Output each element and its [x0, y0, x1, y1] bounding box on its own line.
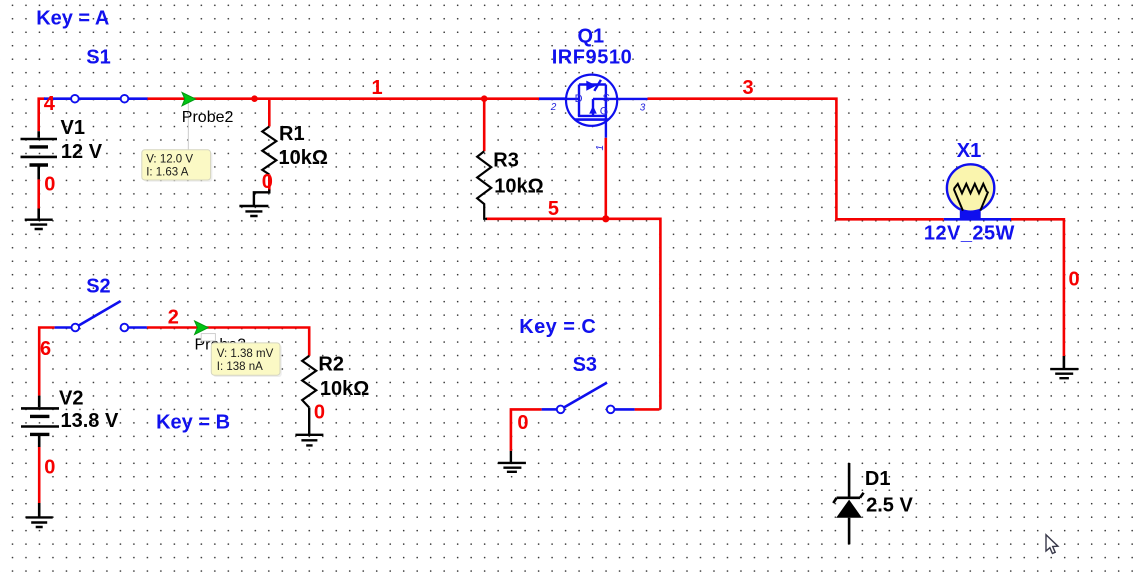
svg-text:IRF9510: IRF9510 [552, 47, 633, 69]
svg-text:10kΩ: 10kΩ [279, 147, 328, 169]
svg-text:0: 0 [314, 402, 325, 424]
svg-text:4: 4 [44, 93, 56, 115]
svg-text:2.5 V: 2.5 V [866, 495, 913, 517]
svg-text:12V_25W: 12V_25W [924, 223, 1015, 245]
svg-text:10kΩ: 10kΩ [494, 176, 543, 198]
svg-text:R2: R2 [318, 354, 344, 376]
svg-text:12 V: 12 V [61, 141, 103, 163]
svg-text:D: D [575, 93, 583, 105]
svg-text:I: 138 nA: I: 138 nA [217, 361, 263, 373]
svg-text:S2: S2 [86, 275, 110, 297]
svg-text:13.8 V: 13.8 V [61, 410, 119, 432]
svg-text:I: 1.63 A: I: 1.63 A [146, 166, 189, 178]
svg-text:V1: V1 [61, 117, 85, 139]
svg-text:2: 2 [168, 306, 179, 328]
svg-text:3: 3 [640, 103, 646, 114]
svg-text:Probe2: Probe2 [182, 109, 234, 126]
svg-text:R1: R1 [279, 123, 305, 145]
svg-text:V2: V2 [59, 387, 83, 409]
svg-text:3: 3 [743, 77, 754, 99]
svg-text:Q1: Q1 [578, 26, 605, 48]
svg-text:0: 0 [517, 412, 528, 434]
svg-text:S: S [603, 93, 610, 105]
svg-text:0: 0 [44, 457, 55, 479]
svg-text:6: 6 [40, 338, 51, 360]
svg-text:S1: S1 [86, 47, 110, 69]
svg-text:1: 1 [595, 145, 606, 151]
svg-text:X1: X1 [957, 140, 981, 162]
svg-text:Key = C: Key = C [519, 316, 596, 338]
svg-text:1: 1 [372, 77, 383, 99]
svg-text:V: 1.38 mV: V: 1.38 mV [217, 348, 274, 360]
svg-text:10kΩ: 10kΩ [320, 378, 369, 400]
svg-text:S3: S3 [573, 354, 597, 376]
svg-text:2: 2 [550, 102, 557, 113]
svg-text:0: 0 [1069, 269, 1080, 291]
svg-text:D1: D1 [865, 468, 891, 490]
svg-text:Key = B: Key = B [156, 411, 230, 433]
svg-text:0: 0 [44, 174, 55, 196]
svg-text:0: 0 [262, 171, 273, 193]
svg-text:V: 12.0 V: V: 12.0 V [146, 154, 193, 166]
svg-text:R3: R3 [493, 150, 519, 172]
svg-text:5: 5 [548, 198, 559, 220]
svg-text:Key = A: Key = A [36, 8, 109, 30]
svg-text:G: G [600, 106, 609, 118]
